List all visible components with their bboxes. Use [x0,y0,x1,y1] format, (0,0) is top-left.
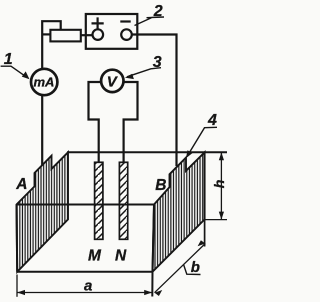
dimension lines [17,152,227,296]
svg-text:M: M [88,247,102,264]
battery box GB (element 2) [86,14,138,49]
svg-text:a: a [84,277,92,294]
back-right vertical edge + b extension [204,152,206,246]
wire mA meter down to electrode A [41,96,43,167]
probe M [95,162,103,239]
voltmeter left lead [89,82,102,163]
leader line 1 with arrow [1,66,28,77]
label b shelf [184,265,201,275]
wire top-left with rheostat slider [42,21,61,70]
svg-text:b: b [191,259,200,276]
front-left vertical edge [16,205,19,272]
svg-text:3: 3 [153,54,162,71]
svg-text:B: B [155,177,166,194]
voltmeter right lead [124,82,138,163]
probe N [119,162,127,239]
plus sign [92,17,104,29]
wire resistor to + terminal [81,34,93,36]
dimension line h [220,152,222,219]
front bottom edge [17,271,152,273]
voltmeter V (element 3) [101,70,123,92]
battery + terminal [93,29,104,40]
svg-text:h: h [211,180,227,189]
tank (element 4) [17,152,228,296]
leader line 3 with arrow and shelf [127,68,161,77]
svg-text:2: 2 [153,3,163,20]
front-right vertical edge + a/b extension [152,205,154,297]
battery - terminal [121,29,132,40]
rheostat R body [50,30,80,42]
electrode B plate with lug [153,152,205,271]
back top rim + h extension tick [67,151,227,153]
svg-text:1: 1 [4,51,13,68]
dimension line a [17,292,152,294]
leader line 4 with arrow and shelf [187,127,217,156]
dimension line b [155,244,206,293]
svg-text:N: N [115,247,127,264]
h bottom tick [205,219,227,221]
a extension tick left [16,275,18,297]
leader line 2 with shelf [135,17,165,26]
electrode A plate with lug [17,152,69,271]
stub wire to resistor left terminal [42,33,51,35]
svg-text:mA: mA [34,75,55,90]
minus sign [120,20,130,22]
front top rim [17,204,155,206]
svg-text:4: 4 [207,112,217,129]
svg-text:A: A [15,176,27,193]
milliammeter mA (element 1) [31,69,57,95]
wire - terminal to right, down to electrode B [132,35,177,167]
